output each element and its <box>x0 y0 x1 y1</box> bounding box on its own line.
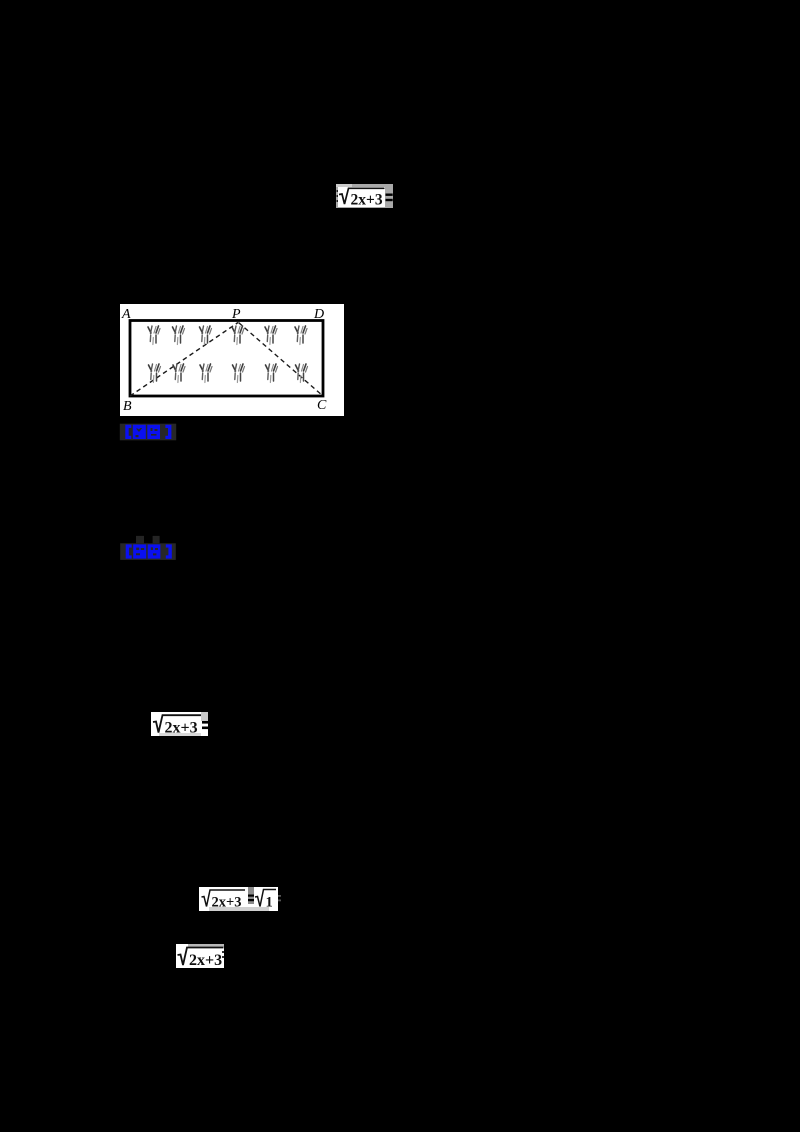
svg-text:2x+3: 2x+3 <box>189 952 222 969</box>
svg-text:C: C <box>317 398 327 413</box>
grass tuft r2c6 <box>296 364 308 383</box>
grass tuft r2c3 <box>200 364 212 383</box>
grass tuft r1c1 <box>148 326 160 345</box>
grass tuft r1c6 <box>295 326 307 345</box>
svg-text:2x+3: 2x+3 <box>212 895 242 911</box>
rectangle ABCD border <box>130 321 323 397</box>
blue label 1 (analysis) <box>119 423 177 441</box>
glyph blob 2 <box>147 425 160 439</box>
equals sign F3 <box>248 895 254 897</box>
svg-text:A: A <box>121 307 131 322</box>
artifact square a <box>136 536 144 543</box>
svg-text:2x+3: 2x+3 <box>351 192 383 209</box>
faint equals right F3 <box>278 895 281 897</box>
glyph blob 2 <box>148 544 161 558</box>
glyph blob 1 <box>133 544 146 558</box>
svg-text:B: B <box>123 399 132 414</box>
svg-text:P: P <box>231 307 241 322</box>
right bracket glyph <box>166 544 172 558</box>
radical sign F3b <box>255 890 276 907</box>
radical sign F3a <box>202 890 246 907</box>
svg-text:2x+3: 2x+3 <box>165 720 198 737</box>
blue label 2 (explanation) <box>119 535 179 561</box>
grass tuft r2c2 <box>173 364 185 383</box>
dashed line P-C <box>239 323 324 397</box>
grass tuft r2c1 <box>149 364 161 383</box>
equals sign F1 <box>386 194 393 196</box>
svg-text:D: D <box>313 307 324 322</box>
artifact square b <box>153 536 160 543</box>
radical sign F1 <box>339 188 385 204</box>
dotted cursor left F1 <box>337 190 339 192</box>
equals sign F2 <box>202 721 211 724</box>
formula image F4: sqrt(2x+3) <box>176 943 226 969</box>
radical sign F2 <box>153 715 201 732</box>
grass tuft r1c3 <box>200 326 212 345</box>
grass tuft r1c4 <box>232 326 244 345</box>
dashed line B-P <box>130 323 238 397</box>
formula image F3: sqrt(2x+3)=sqrt(1..) <box>199 887 281 912</box>
glyph blob 1 <box>133 425 146 439</box>
svg-text:1: 1 <box>266 895 273 911</box>
grass tuft r2c4 <box>233 364 245 383</box>
grass tuft r1c2 <box>173 326 185 345</box>
grass tuft r1c5 <box>265 326 277 345</box>
tick marks right F4 <box>222 951 224 953</box>
grass tuft r2c5 <box>266 364 278 383</box>
radical sign F4 <box>178 948 224 966</box>
left bracket glyph <box>126 544 132 558</box>
left bracket glyph <box>125 425 131 439</box>
figure: rectangle ABCD with point P, dashed lines, grass <box>120 304 344 416</box>
formula image F1: sqrt(2x+3) with gray frame, top area <box>336 184 394 209</box>
formula image F2: sqrt(2x+3)= <box>151 711 211 737</box>
right bracket glyph <box>165 425 171 439</box>
